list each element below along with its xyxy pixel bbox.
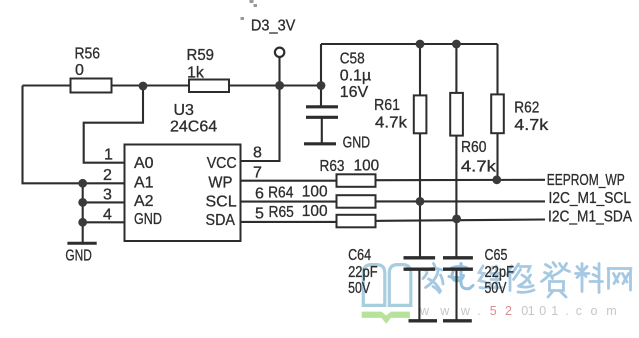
watermark character zi <box>542 263 570 298</box>
svg-text:16V: 16V <box>340 84 369 101</box>
svg-text:5: 5 <box>255 206 264 223</box>
svg-text:4: 4 <box>103 207 112 224</box>
svg-text:R61: R61 <box>374 97 400 114</box>
svg-text:U3: U3 <box>174 102 195 119</box>
wire D3_3V terminal stem <box>278 57 280 86</box>
svg-text:A2: A2 <box>134 193 154 210</box>
wire main top from rail to R56 <box>23 84 71 86</box>
wire R56 to R59 <box>112 84 190 86</box>
svg-text:22pF: 22pF <box>348 264 378 281</box>
node rail R61 junction <box>416 40 425 49</box>
resistor R64 <box>337 195 376 208</box>
wire WP pin7 to R63 <box>241 180 337 182</box>
wire R61 down to C64 <box>419 133 421 257</box>
wire R64 to I2C_M1_SCL label <box>376 200 546 202</box>
wire R62 down to WP net <box>496 133 498 180</box>
svg-text:8: 8 <box>253 145 262 162</box>
wire R59 to C58 column <box>229 84 321 86</box>
node SDA C65 junction <box>452 215 461 224</box>
watermark logo book icon left page <box>363 265 385 306</box>
svg-text:24C64: 24C64 <box>170 119 217 136</box>
svg-text:GND: GND <box>343 135 371 152</box>
wire C58 to ground <box>321 117 323 144</box>
svg-text:D3_3V: D3_3V <box>251 18 296 35</box>
wire rail to R60 <box>455 44 457 93</box>
watermark character wei <box>479 266 502 289</box>
wire rail to R61 <box>419 44 421 95</box>
svg-text:R59: R59 <box>187 47 215 64</box>
svg-text:C64: C64 <box>348 247 371 264</box>
svg-text:EEPROM_WP: EEPROM_WP <box>547 172 625 189</box>
node R56-R59 junction <box>139 82 148 91</box>
wire SCL pin6 to R64 <box>241 201 337 203</box>
capacitor C64 <box>404 258 436 269</box>
wire top rail <box>321 43 498 45</box>
svg-text:SCL: SCL <box>206 194 237 211</box>
svg-text:R63: R63 <box>320 158 345 175</box>
svg-text:3: 3 <box>103 187 112 204</box>
speck top <box>241 0 258 20</box>
resistor R59 <box>189 80 229 93</box>
svg-text:1: 1 <box>104 147 113 164</box>
svg-text:C58: C58 <box>340 51 365 68</box>
svg-text:R62: R62 <box>514 99 539 116</box>
svg-text:6: 6 <box>255 186 264 203</box>
node GND pin junction <box>78 218 87 227</box>
svg-text:I2C_M1_SCL: I2C_M1_SCL <box>549 190 632 207</box>
node rail R60 junction <box>452 40 461 49</box>
svg-text:4.7k: 4.7k <box>375 115 408 132</box>
wire SDA pin5 to R65 <box>241 221 337 223</box>
svg-text:100: 100 <box>302 203 328 220</box>
ground bar C64 <box>409 319 438 322</box>
wire riser to top rail <box>320 44 322 86</box>
node A2 junction <box>78 198 87 207</box>
svg-text:2: 2 <box>103 167 112 184</box>
node A1 junction <box>78 179 87 188</box>
resistor R63 <box>337 174 376 187</box>
svg-text:100: 100 <box>302 184 328 201</box>
watermark character jia <box>423 264 443 293</box>
svg-text:A1: A1 <box>134 175 154 192</box>
ground bar C65 <box>443 319 472 322</box>
resistor R65 <box>337 215 376 228</box>
wire R63 to EEPROM_WP label <box>376 179 546 181</box>
svg-text:4.7k: 4.7k <box>461 158 497 175</box>
svg-text:50V: 50V <box>348 280 370 297</box>
wire C65 to ground <box>455 269 457 321</box>
wire A1 A2 GND vertical <box>82 183 84 243</box>
wire R65 to I2C_M1_SDA label <box>376 220 546 221</box>
node SCL C64 junction <box>416 197 425 206</box>
svg-text:GND: GND <box>65 248 92 265</box>
svg-text:R64: R64 <box>268 185 293 202</box>
svg-text:I2C_M1_SDA: I2C_M1_SDA <box>548 209 632 226</box>
wire rail end down to R62 <box>496 44 498 94</box>
node C58 riser junction <box>317 81 326 90</box>
resistor R61 <box>414 95 427 133</box>
wire VCC pin8 to D3_3V node <box>241 86 280 162</box>
node WP R62 junction <box>492 175 501 184</box>
svg-text:C65: C65 <box>485 247 508 264</box>
svg-text:A0: A0 <box>134 155 154 172</box>
capacitor C58 <box>306 107 338 118</box>
svg-text:0: 0 <box>75 62 84 79</box>
watermark character wang <box>608 269 631 291</box>
svg-text:100: 100 <box>354 158 380 175</box>
watermark logo book icon right page <box>389 265 411 306</box>
svg-text:4.7k: 4.7k <box>514 117 549 134</box>
wire C58 drop <box>320 86 322 107</box>
svg-text:R56: R56 <box>75 46 101 63</box>
watermark character liao <box>576 264 603 293</box>
op IC U3 box 24C64 <box>125 145 241 242</box>
terminal circle D3_3V <box>275 48 284 57</box>
wire C64 to ground <box>418 269 420 321</box>
node D3_3V junction <box>275 81 284 90</box>
resistor R62 <box>491 94 504 133</box>
wire pin1 jog from R56-R59 node <box>84 86 143 163</box>
svg-text:7: 7 <box>253 165 262 182</box>
svg-text:0.1µ: 0.1µ <box>340 68 371 85</box>
svg-text:50V: 50V <box>485 280 507 297</box>
svg-text:22pF: 22pF <box>485 264 515 281</box>
svg-text:GND: GND <box>134 211 162 228</box>
wire left rail <box>23 86 125 184</box>
wire pin4 stub <box>83 221 125 223</box>
ground bar C58 <box>304 142 336 145</box>
resistor R60 <box>450 93 463 136</box>
ground bar below IC <box>67 242 96 245</box>
capacitor C65 <box>443 258 473 269</box>
wire pin3 stub <box>83 201 125 203</box>
svg-text:SDA: SDA <box>206 212 236 229</box>
watermark character dian <box>449 264 473 289</box>
svg-text:R65: R65 <box>269 204 294 221</box>
svg-text:WP: WP <box>208 175 232 192</box>
resistor R56 <box>71 79 112 93</box>
wire R60 down to C65 <box>455 136 457 258</box>
watermark character xiu <box>507 264 534 292</box>
svg-text:VCC: VCC <box>207 155 237 172</box>
svg-text:1k: 1k <box>187 65 205 82</box>
svg-text:R60: R60 <box>461 139 487 156</box>
watermark book green base <box>362 312 410 324</box>
